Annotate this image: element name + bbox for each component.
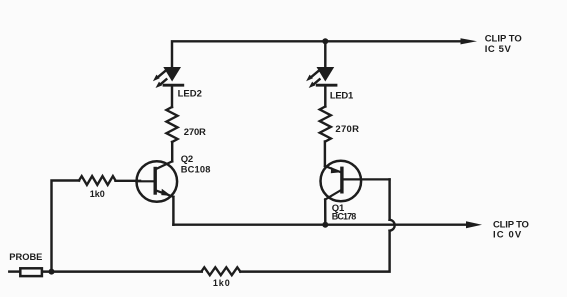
wire: 1k0 to Q2 base xyxy=(116,180,141,182)
svg-text:PROBE: PROBE xyxy=(9,252,42,262)
arrow to CLIP TO IC 0V xyxy=(466,221,482,228)
label: Q2 xyxy=(181,154,193,165)
svg-text:1k0: 1k0 xyxy=(90,189,105,199)
label: Q1 xyxy=(332,203,345,214)
label: CLIP TO IC 5V xyxy=(485,34,522,55)
svg-text:IC 5V: IC 5V xyxy=(485,44,512,55)
node: junction Q1 collector on 0V rail xyxy=(322,222,328,228)
resistor: 270R (right) xyxy=(320,107,331,142)
label: PROBE xyxy=(9,252,42,262)
svg-text:IC 0V: IC 0V xyxy=(493,230,522,241)
svg-text:LED1: LED1 xyxy=(330,90,354,101)
wire: 0V rail xyxy=(173,223,468,225)
svg-text:270R: 270R xyxy=(184,127,206,138)
probe connector xyxy=(9,268,42,276)
node: junction LED1 column on +5V rail xyxy=(322,38,328,44)
label: 1k0 (bottom) xyxy=(213,278,231,288)
wire: bottom wire to probe junction xyxy=(43,270,202,272)
arrow to CLIP TO IC 5V xyxy=(461,38,478,44)
wire: R270R to Q2 collector xyxy=(171,142,173,161)
label: 270R (right) xyxy=(335,124,359,135)
wire: +5V rail to LED1 anode xyxy=(324,41,326,68)
svg-text:270R: 270R xyxy=(335,124,359,135)
wire: LED1 cathode to R270R xyxy=(324,85,326,106)
svg-text:LED2: LED2 xyxy=(178,88,202,99)
LED1 xyxy=(306,67,336,88)
label: BC178 xyxy=(332,211,356,221)
wire: Q2 emitter to 0V rail xyxy=(172,197,174,225)
svg-text:1k0: 1k0 xyxy=(213,278,231,288)
wire: LED2 cathode to R270R xyxy=(171,85,173,107)
wire: Q1 base down right column xyxy=(388,179,390,219)
node: junction probe / left column xyxy=(49,269,55,275)
transistor Q2 BC108 (NPN) xyxy=(137,161,178,202)
resistor: 270R (left) xyxy=(166,107,177,142)
label: 1k0 (left) xyxy=(90,189,105,199)
wire: +5V top rail with LED2 drop xyxy=(172,41,463,68)
label: 270R (left) xyxy=(184,127,206,138)
svg-text:BC108: BC108 xyxy=(181,164,211,174)
resistor: 1k0 (left) xyxy=(79,176,115,185)
resistor: 1k0 (bottom) xyxy=(202,267,241,275)
label: LED1 xyxy=(330,90,354,101)
wire: Q1 collector to 0V rail xyxy=(324,200,327,225)
wire: left column up to 1k0 xyxy=(52,181,80,272)
wire: hop over 0V rail xyxy=(390,220,395,231)
label: CLIP TO IC 0V xyxy=(493,220,529,241)
label: BC108 xyxy=(181,164,211,174)
label: LED2 xyxy=(178,88,202,99)
wire: R270R to Q1 emitter xyxy=(324,142,326,167)
svg-text:BC178: BC178 xyxy=(332,211,356,221)
LED2 xyxy=(153,67,183,88)
transistor Q1 BC178 (PNP) xyxy=(321,161,390,202)
wire: right column to bottom wire xyxy=(240,231,389,272)
